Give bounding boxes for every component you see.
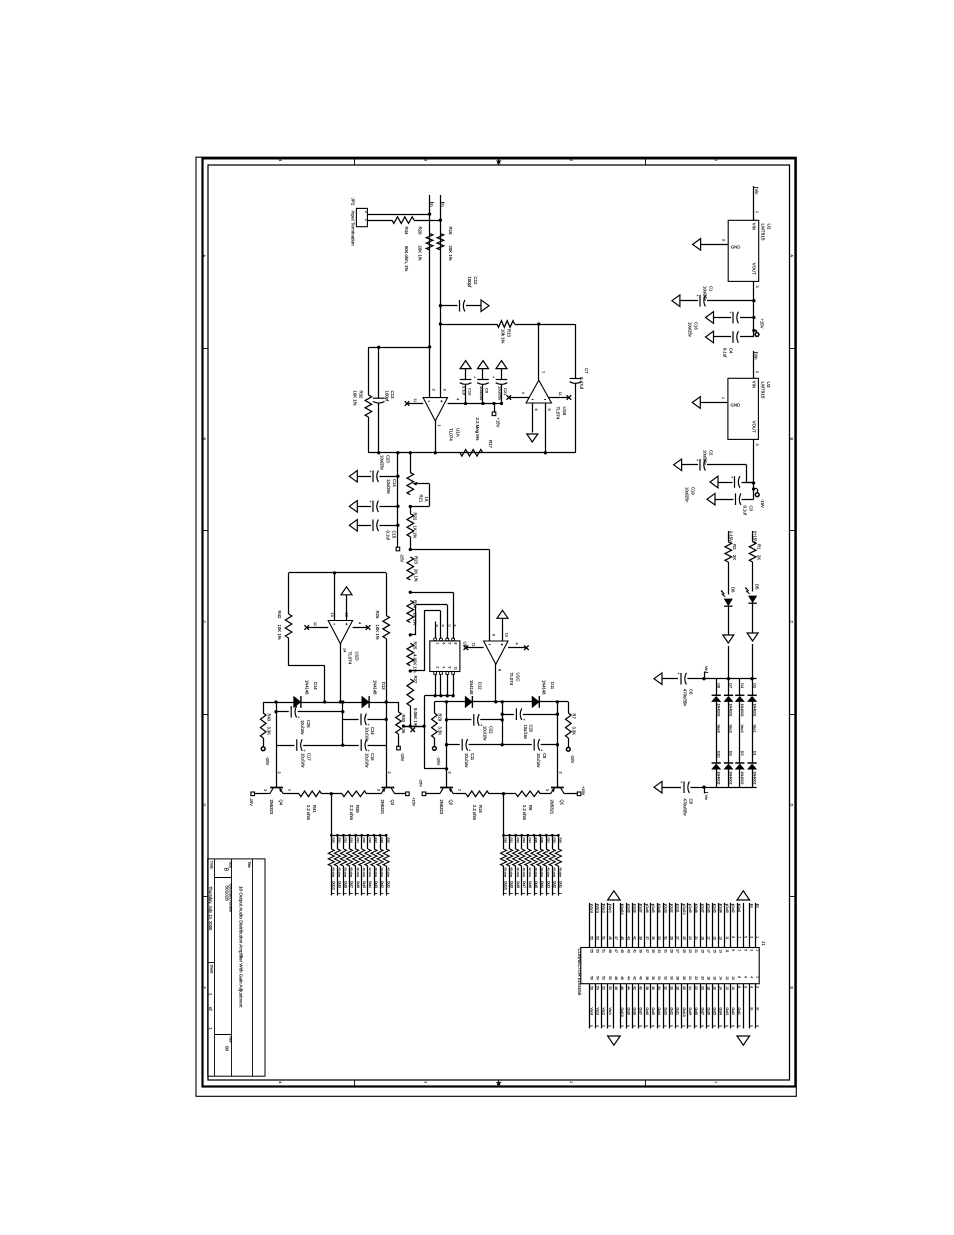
- svg-text:Out5: Out5: [651, 1008, 655, 1015]
- wire: [687, 678, 704, 680]
- svg-text:Q4: Q4: [279, 800, 284, 806]
- wire: [380, 835, 382, 849]
- wire: [489, 550, 491, 642]
- svg-text:25: 25: [682, 936, 686, 940]
- svg-text:31: 31: [663, 949, 667, 953]
- svg-text:10u/25v: 10u/25v: [703, 286, 708, 302]
- power terminal: [422, 792, 426, 796]
- diode D7 1N4002: [724, 694, 733, 696]
- wire: [716, 702, 718, 763]
- resistor: [347, 849, 353, 866]
- svg-text:4: 4: [278, 159, 282, 161]
- wire: [453, 674, 455, 696]
- wire: [480, 719, 502, 721]
- svg-text:5: 5: [547, 409, 551, 411]
- svg-text:23: 23: [688, 936, 692, 940]
- wire: [386, 835, 388, 849]
- wire: [424, 696, 426, 769]
- wire: [728, 562, 730, 595]
- junction: [501, 718, 504, 721]
- svg-text:Out5: Out5: [713, 1008, 717, 1015]
- power terminal: [397, 746, 401, 750]
- wire: [534, 866, 536, 896]
- wire: [378, 347, 380, 398]
- gnd arrow D5: [747, 633, 758, 641]
- svg-text:56: 56: [589, 976, 593, 980]
- wire: [434, 702, 436, 713]
- junction: [492, 402, 495, 405]
- wire: [380, 866, 382, 896]
- svg-text:13: 13: [719, 936, 723, 940]
- svg-text:Out4: Out4: [719, 1008, 723, 1015]
- junction: [752, 299, 755, 302]
- resistor: [407, 473, 414, 495]
- svg-text:C17: C17: [307, 753, 312, 761]
- svg-text:R39: R39: [386, 838, 390, 844]
- junction: [396, 524, 399, 527]
- svg-text:9: 9: [731, 936, 735, 938]
- svg-text:44: 44: [626, 986, 630, 990]
- svg-text:604 ohm, 1%: 604 ohm, 1%: [404, 246, 409, 271]
- wire: [263, 702, 265, 713]
- wire: [730, 903, 732, 948]
- svg-text:56: 56: [589, 986, 593, 990]
- svg-text:D: D: [202, 804, 206, 807]
- svg-text:C20: C20: [529, 725, 534, 733]
- svg-text:1: 1: [364, 219, 368, 221]
- resistor: [407, 557, 414, 580]
- svg-text:J1: J1: [761, 941, 766, 946]
- svg-text:Out6: Out6: [356, 881, 360, 888]
- wire: [589, 903, 591, 948]
- svg-text:1: 1: [714, 159, 718, 161]
- svg-text:R7: R7: [571, 714, 576, 720]
- sheet marker star top: [496, 158, 502, 164]
- junction: [274, 710, 277, 713]
- svg-text:49: 49: [608, 936, 612, 940]
- wire: [575, 324, 577, 379]
- wire: [410, 506, 429, 508]
- svg-text:13: 13: [330, 613, 334, 617]
- box: [728, 220, 759, 281]
- svg-text:10u/16v: 10u/16v: [300, 720, 305, 736]
- resistor R18 20K: [437, 234, 444, 250]
- svg-text:3: 3: [750, 949, 754, 951]
- gnd arrow U3: [692, 397, 700, 409]
- wire: [740, 317, 754, 319]
- svg-text:10u/25v: 10u/25v: [497, 386, 502, 400]
- wire: [440, 674, 442, 696]
- resistor: [377, 849, 383, 866]
- svg-text:11: 11: [413, 398, 417, 402]
- svg-text:100pf: 100pf: [467, 277, 472, 289]
- wire: [398, 702, 400, 712]
- junction: [508, 834, 511, 837]
- resistor: [516, 791, 541, 797]
- svg-text:Vsc1: Vsc1: [608, 1008, 612, 1016]
- svg-text:-15V: -15V: [728, 533, 733, 542]
- svg-text:C10: C10: [467, 388, 472, 396]
- svg-text:11: 11: [472, 643, 476, 647]
- wire: [749, 984, 751, 1029]
- wire: [704, 678, 757, 680]
- wire: [700, 903, 702, 948]
- wire: [322, 793, 342, 795]
- wire: [753, 351, 755, 378]
- wire: [434, 701, 446, 703]
- svg-text:C15: C15: [392, 531, 397, 539]
- resistor: [299, 791, 322, 797]
- junction: [323, 700, 326, 703]
- wire: [558, 835, 560, 849]
- wire: [307, 627, 329, 629]
- diode: [465, 696, 472, 708]
- svg-text:10K 1%: 10K 1%: [375, 625, 380, 640]
- svg-text:Out3: Out3: [663, 905, 667, 912]
- wire: [255, 793, 270, 795]
- wire: [440, 610, 442, 639]
- svg-text:D: D: [790, 804, 794, 807]
- junction: [341, 743, 344, 746]
- svg-text:Out1: Out1: [386, 881, 390, 888]
- svg-text:Q1: Q1: [559, 800, 564, 806]
- svg-text:A: A: [453, 625, 457, 627]
- power arrow: [706, 312, 714, 324]
- junction: [385, 700, 388, 703]
- svg-text:Rev: Rev: [228, 1037, 232, 1043]
- junction: [500, 402, 503, 405]
- svg-text:C21: C21: [503, 388, 508, 396]
- wire: [410, 634, 415, 636]
- resistor: [501, 849, 507, 866]
- svg-text:R20: R20: [418, 227, 423, 235]
- svg-text:In: In: [750, 1008, 754, 1011]
- resistor: [342, 791, 367, 797]
- svg-text:2: 2: [431, 389, 435, 391]
- svg-text:1N4148: 1N4148: [304, 680, 309, 695]
- svg-text:Vsc2: Vsc2: [602, 1008, 606, 1016]
- transistor: [551, 787, 564, 789]
- svg-text:34: 34: [657, 976, 661, 980]
- wire: [757, 489, 759, 493]
- svg-text:D9: D9: [729, 751, 733, 756]
- wire: [435, 421, 437, 453]
- svg-text:R41: R41: [312, 805, 317, 813]
- wire: [687, 984, 689, 1029]
- wire: [501, 369, 503, 380]
- wire: [203, 348, 209, 350]
- LED: [748, 596, 756, 603]
- wire: [638, 984, 640, 1029]
- svg-text:C8: C8: [689, 799, 694, 805]
- wire: [540, 793, 550, 795]
- capacitor: [570, 378, 582, 380]
- wire: [440, 305, 457, 307]
- svg-text:22: 22: [694, 976, 698, 980]
- svg-text:Vsc4: Vsc4: [589, 905, 593, 913]
- svg-text:3.3K: 3.3K: [266, 727, 271, 736]
- svg-text:20K 1%: 20K 1%: [418, 246, 423, 261]
- resistor: [359, 849, 365, 866]
- svg-text:10u/16v: 10u/16v: [301, 753, 306, 769]
- svg-text:Out7: Out7: [639, 905, 643, 912]
- svg-text:2.2 ohm: 2.2 ohm: [306, 805, 311, 821]
- svg-text:40 ohm: 40 ohm: [559, 868, 563, 878]
- wire: [737, 984, 739, 1029]
- svg-text:Out3: Out3: [546, 881, 550, 888]
- U5 top pin 3: [446, 638, 449, 641]
- svg-text:40: 40: [639, 986, 643, 990]
- svg-text:R32: R32: [516, 838, 520, 844]
- svg-text:40 ohm: 40 ohm: [338, 868, 342, 878]
- svg-text:38: 38: [645, 986, 649, 990]
- wire: [502, 714, 514, 716]
- diode D2 1N4002: [748, 694, 757, 696]
- junction: [752, 316, 755, 319]
- resistor: [407, 514, 414, 537]
- resistor: [365, 849, 371, 866]
- wire: [700, 984, 702, 1029]
- svg-text:17: 17: [706, 936, 710, 940]
- junction: [339, 700, 342, 703]
- resistor: [466, 791, 489, 797]
- svg-text:VOUT: VOUT: [751, 421, 756, 433]
- wire: [718, 984, 720, 1029]
- power arrow: [654, 781, 662, 793]
- wire: [739, 679, 741, 696]
- svg-text:Q2: Q2: [449, 800, 454, 806]
- wire: [288, 573, 290, 614]
- capacitor: [732, 331, 734, 343]
- capacitor: [460, 379, 472, 381]
- junction: [556, 743, 559, 746]
- wire: [626, 903, 628, 948]
- svg-text:R36: R36: [540, 838, 544, 844]
- svg-text:Out3: Out3: [725, 905, 729, 912]
- wire: [447, 719, 472, 721]
- svg-text:2: 2: [435, 667, 439, 669]
- wire to left bank: [331, 794, 333, 835]
- wire: [343, 719, 359, 721]
- wire: [482, 369, 484, 380]
- power terminal: [406, 792, 410, 796]
- svg-text:10: 10: [504, 633, 508, 637]
- wire: [353, 627, 369, 629]
- wire: [557, 702, 559, 788]
- capacitor: [683, 781, 685, 793]
- svg-text:GND: GND: [731, 402, 741, 407]
- svg-text:4: 4: [278, 1081, 282, 1083]
- svg-text:30: 30: [670, 976, 674, 980]
- resistor: [497, 321, 515, 328]
- wire: [424, 768, 446, 770]
- svg-text:D12: D12: [478, 682, 483, 690]
- junction: [557, 834, 560, 837]
- junction: [752, 329, 755, 332]
- capacitor: [373, 397, 385, 399]
- junction: [341, 710, 344, 713]
- wire: [379, 506, 398, 508]
- wire: [379, 476, 398, 478]
- wire: [252, 859, 254, 1076]
- svg-text:Out2: Out2: [731, 905, 735, 912]
- wire: [681, 984, 683, 1029]
- svg-text:D11: D11: [550, 682, 555, 690]
- svg-text:Out8: Out8: [516, 881, 520, 888]
- svg-text:6: 6: [743, 986, 747, 988]
- power terminal: [396, 547, 400, 551]
- junction: [377, 346, 380, 349]
- wire: [410, 537, 412, 550]
- svg-text:D8: D8: [716, 683, 720, 688]
- svg-text:40 ohm: 40 ohm: [528, 868, 532, 878]
- svg-text:In: In: [756, 1008, 760, 1011]
- svg-text:1: 1: [756, 936, 760, 938]
- wire: [378, 404, 380, 453]
- svg-text:10u/16v: 10u/16v: [483, 726, 488, 742]
- svg-text:R34: R34: [528, 838, 532, 844]
- power arrow: [497, 610, 508, 618]
- svg-text:C14: C14: [392, 479, 397, 487]
- wire: [701, 244, 729, 246]
- svg-text:Out9: Out9: [688, 1008, 692, 1015]
- junction: [545, 834, 548, 837]
- svg-text:C23: C23: [386, 455, 391, 463]
- wire: [607, 903, 609, 948]
- wire: [669, 984, 671, 1029]
- wire: [575, 384, 577, 453]
- svg-text:Input Termination: Input Termination: [351, 211, 356, 247]
- wire: [595, 984, 597, 1029]
- svg-text:TL074: TL074: [348, 652, 353, 665]
- wire: [743, 903, 745, 948]
- junction: [428, 345, 431, 348]
- svg-text:2.2 ohm: 2.2 ohm: [472, 805, 477, 821]
- resistor: [432, 713, 438, 738]
- svg-text:C9: C9: [485, 388, 490, 394]
- svg-text:40 ohm: 40 ohm: [368, 868, 372, 878]
- junction: [752, 487, 755, 490]
- svg-text:6: 6: [441, 643, 445, 645]
- capacitor: [372, 471, 374, 483]
- svg-text:44: 44: [626, 976, 630, 980]
- svg-text:5: 5: [743, 949, 747, 951]
- U5 bottom pin: [434, 672, 437, 675]
- power terminal: [261, 747, 265, 751]
- svg-text:0.47uf: 0.47uf: [579, 377, 584, 390]
- svg-text:Out9: Out9: [626, 1008, 630, 1015]
- svg-text:3: 3: [443, 389, 447, 391]
- svg-text:U3: U3: [766, 382, 771, 388]
- svg-text:10u/16v: 10u/16v: [364, 753, 369, 769]
- wire: [650, 903, 652, 948]
- wire: [503, 866, 505, 896]
- wire: [756, 331, 758, 333]
- wire: [417, 483, 430, 485]
- svg-text:0.1uf: 0.1uf: [723, 348, 728, 358]
- svg-text:34: 34: [657, 986, 661, 990]
- wire: [289, 665, 325, 667]
- svg-text:Out5: Out5: [362, 881, 366, 888]
- LED: [724, 599, 732, 606]
- junction: [544, 451, 547, 454]
- wire: [509, 397, 529, 399]
- svg-text:Out6: Out6: [645, 905, 649, 912]
- svg-text:2: 2: [722, 239, 726, 241]
- wire: [337, 866, 339, 896]
- svg-text:54: 54: [596, 976, 600, 980]
- power arrow: [349, 520, 357, 532]
- wire: [716, 679, 718, 696]
- svg-text:Out9: Out9: [338, 881, 342, 888]
- svg-text:4: 4: [441, 667, 445, 669]
- wire: [215, 1034, 232, 1036]
- wire bridge col up left: [728, 646, 730, 679]
- junction: [445, 767, 448, 770]
- junction: [409, 505, 412, 508]
- wire: [489, 793, 516, 795]
- svg-text:10u/25v: 10u/25v: [386, 479, 391, 495]
- svg-text:2.2 ohm: 2.2 ohm: [522, 805, 527, 821]
- wire: [694, 984, 696, 1029]
- wire: [298, 711, 343, 713]
- op-amp: [484, 641, 508, 664]
- svg-text:Out9: Out9: [688, 905, 692, 912]
- wire: [203, 530, 209, 532]
- wire: [453, 592, 455, 639]
- svg-text:Out10: Out10: [620, 905, 624, 914]
- wire: [755, 903, 757, 948]
- wire: [687, 903, 689, 948]
- svg-text:7: 7: [737, 936, 741, 938]
- svg-text:R9: R9: [528, 805, 533, 811]
- svg-text:16: 16: [713, 976, 717, 980]
- wire: [716, 769, 718, 787]
- svg-text:Title: Title: [247, 861, 251, 868]
- wire: [447, 744, 460, 746]
- no-connect: [304, 625, 309, 630]
- svg-text:Out1: Out1: [737, 905, 741, 912]
- svg-text:2: 2: [558, 772, 562, 774]
- wire: [435, 674, 437, 696]
- wire: [740, 336, 754, 338]
- wire bridge col up right: [752, 644, 754, 679]
- svg-text:R31: R31: [510, 838, 514, 844]
- svg-text:45: 45: [620, 936, 624, 940]
- svg-text:+15V: +15V: [760, 319, 765, 329]
- svg-text:R29: R29: [438, 714, 443, 722]
- wire: [367, 220, 392, 222]
- svg-text:3: 3: [750, 936, 754, 938]
- svg-text:D1: D1: [752, 751, 756, 756]
- wire: [410, 670, 424, 672]
- power arrow: [710, 476, 718, 488]
- wire: [753, 439, 755, 499]
- svg-text:37: 37: [645, 936, 649, 940]
- svg-text:In: In: [756, 905, 760, 908]
- svg-text:40 ohm: 40 ohm: [540, 868, 544, 878]
- junction: [361, 834, 364, 837]
- wire: [276, 711, 289, 713]
- junction: [539, 834, 542, 837]
- wire: [523, 714, 558, 716]
- svg-text:10u/25v: 10u/25v: [479, 386, 484, 400]
- junction: [385, 718, 388, 721]
- junction: [501, 700, 504, 703]
- svg-text:27: 27: [676, 949, 680, 953]
- junction: [752, 481, 755, 484]
- svg-text:10u/16v: 10u/16v: [364, 727, 369, 743]
